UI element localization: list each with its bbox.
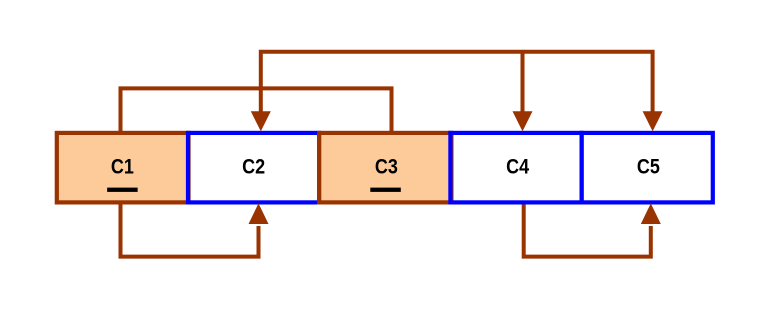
svg-text:C2: C2 xyxy=(242,155,265,178)
svg-text:C5: C5 xyxy=(637,155,660,178)
svg-text:C3: C3 xyxy=(375,155,398,178)
svg-text:C4: C4 xyxy=(506,155,529,178)
svg-text:C1: C1 xyxy=(111,155,134,178)
